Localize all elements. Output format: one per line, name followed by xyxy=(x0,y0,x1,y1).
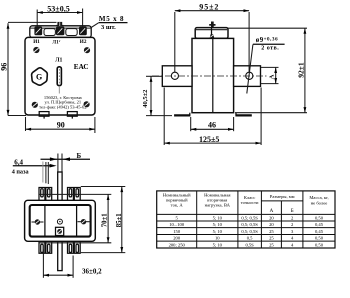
svg-text:G: G xyxy=(36,73,42,82)
dimension 96 bottom extension line xyxy=(8,115,26,117)
70-dim top extension (crosses prongs) xyxy=(39,193,111,195)
svg-text:150: 150 xyxy=(173,229,181,234)
svg-text:36±0,2: 36±0,2 xyxy=(82,268,102,276)
svg-text:25: 25 xyxy=(269,242,274,247)
terminal well left xyxy=(44,29,55,36)
svg-text:А: А xyxy=(268,74,275,79)
top prong group left xyxy=(39,188,52,201)
face screw bottom-left xyxy=(32,102,38,108)
svg-text:53±0,5: 53±0,5 xyxy=(47,5,69,14)
header texts xyxy=(163,193,329,214)
left wing hole xyxy=(171,72,178,79)
95 extension line right (to hole) xyxy=(248,12,250,72)
face screw top-right xyxy=(84,47,90,53)
svg-text:5; 10: 5; 10 xyxy=(213,242,223,247)
foot right xyxy=(235,113,251,116)
data rows xyxy=(169,216,324,249)
label 6,4 / 4 паза xyxy=(12,159,57,176)
95 extension line left (to hole) xyxy=(174,12,176,72)
svg-text:И2: И2 xyxy=(80,39,87,45)
svg-text:ЕАС: ЕАС xyxy=(74,63,89,71)
body (front) xyxy=(25,37,95,115)
svg-text:70±1: 70±1 xyxy=(102,213,109,228)
inner separator right xyxy=(76,205,78,237)
inner separator left xyxy=(44,205,46,237)
table grid xyxy=(157,191,335,248)
terminal boss+screw И2 xyxy=(79,27,87,36)
slot extension lines xyxy=(58,154,62,173)
svg-text:20: 20 xyxy=(269,222,274,227)
dimension 125±5 xyxy=(164,88,261,146)
bottom tab right xyxy=(67,112,77,119)
body middle parting line xyxy=(212,38,214,112)
center ground pad with screw xyxy=(56,227,64,235)
svg-text:25: 25 xyxy=(269,236,274,241)
70-dim bottom extension xyxy=(39,242,111,244)
svg-text:20: 20 xyxy=(269,216,274,221)
svg-text:5; 10: 5; 10 xyxy=(213,222,223,227)
svg-text:И1: И1 xyxy=(33,39,40,45)
svg-text:точности: точности xyxy=(241,200,259,205)
box inner recess xyxy=(30,205,91,237)
dimension 90 xyxy=(26,117,95,133)
svg-text:10...100: 10...100 xyxy=(169,222,185,227)
svg-text:46: 46 xyxy=(208,121,216,130)
svg-text:2 отв.: 2 отв. xyxy=(261,46,279,52)
screw under cap xyxy=(210,34,215,38)
95 extension continuation into wings xyxy=(174,66,176,73)
right wing hole xyxy=(246,72,253,79)
face screw bottom-right xyxy=(84,101,90,107)
bracket right wing xyxy=(234,66,261,87)
slot width dim line xyxy=(41,157,91,161)
dimension 95±2 xyxy=(175,2,249,12)
secondary screw right xyxy=(78,219,90,224)
box outer xyxy=(25,200,96,241)
svg-text:Б: Б xyxy=(291,209,294,214)
svg-text:10: 10 xyxy=(215,236,220,241)
svg-text:Л1: Л1 xyxy=(55,57,62,63)
dimension 70±1 xyxy=(102,194,110,242)
busbar line below window xyxy=(58,86,60,94)
middle terminal cap on top xyxy=(56,22,63,27)
terminal strip xyxy=(30,26,91,38)
svg-text:200; 250: 200; 250 xyxy=(169,242,186,247)
dimension A (wing height) xyxy=(261,67,279,83)
dimension 96 vertical line xyxy=(7,23,10,115)
svg-text:200: 200 xyxy=(173,236,181,241)
busbar window xyxy=(57,67,61,86)
85-dim bottom extension xyxy=(81,252,126,254)
svg-text:М5 х 8: М5 х 8 xyxy=(99,15,124,23)
svg-text:92±1: 92±1 xyxy=(297,62,306,78)
cap top screw xyxy=(209,22,215,28)
body (side) xyxy=(192,38,234,112)
terminal well right xyxy=(66,29,77,36)
svg-text:25: 25 xyxy=(269,229,274,234)
53 extension line left xyxy=(36,10,38,30)
bottom prong group left xyxy=(39,241,52,253)
bracket left wing xyxy=(162,66,192,87)
dashed centerline xyxy=(152,75,267,77)
53 extension continuation into strip xyxy=(36,26,38,30)
bottom tab left xyxy=(39,112,49,119)
dimension 92±1 xyxy=(228,28,307,113)
bottom prong group right xyxy=(68,241,81,253)
svg-text:40,5±2: 40,5±2 xyxy=(142,90,149,108)
svg-text:5; 10: 5; 10 xyxy=(213,229,223,234)
face screw top-left xyxy=(33,47,39,53)
paza extension lines xyxy=(43,162,48,185)
svg-text:А: А xyxy=(270,209,274,214)
svg-text:4 паза: 4 паза xyxy=(12,169,29,176)
top prong group right xyxy=(68,188,81,201)
foot left xyxy=(174,113,190,116)
svg-text:96: 96 xyxy=(0,63,9,71)
center small circle xyxy=(57,219,62,224)
svg-text:90: 90 xyxy=(57,121,65,130)
dimension 85±1 xyxy=(116,187,123,253)
svg-text:85±1: 85±1 xyxy=(116,213,123,228)
cap center line xyxy=(211,28,213,39)
dimension 40,5±2 xyxy=(142,76,172,115)
85-dim top extension xyxy=(81,186,126,188)
svg-text:125±5: 125±5 xyxy=(199,135,219,144)
svg-text:5; 10: 5; 10 xyxy=(213,216,223,221)
logo pentagon with G xyxy=(32,68,48,85)
label ø9+0,36 / 2 отв. xyxy=(247,37,285,94)
terminal boss+screw И1 xyxy=(34,27,42,36)
terminal cover cap (side) xyxy=(195,28,228,39)
svg-text:не более: не более xyxy=(311,201,328,206)
terminal boss+screw Л1 xyxy=(56,27,64,36)
svg-text:Б: Б xyxy=(77,152,82,160)
label M5 x 8 / 3 шт. xyxy=(87,15,128,31)
primary busbar (bottom view) xyxy=(58,172,62,271)
dimension 46 xyxy=(191,117,234,131)
svg-text:3 шт.: 3 шт. xyxy=(101,24,116,31)
svg-text:тел-факс (4942) 53-45-62: тел-факс (4942) 53-45-62 xyxy=(39,104,86,109)
dimension 96 top extension line xyxy=(8,21,57,23)
secondary screw left xyxy=(32,219,44,224)
dimension 53±0.5 line xyxy=(37,11,82,14)
dimension 36±0,2 xyxy=(43,250,102,278)
svg-text:95±2: 95±2 xyxy=(199,2,219,11)
53 extension line right xyxy=(82,9,84,31)
